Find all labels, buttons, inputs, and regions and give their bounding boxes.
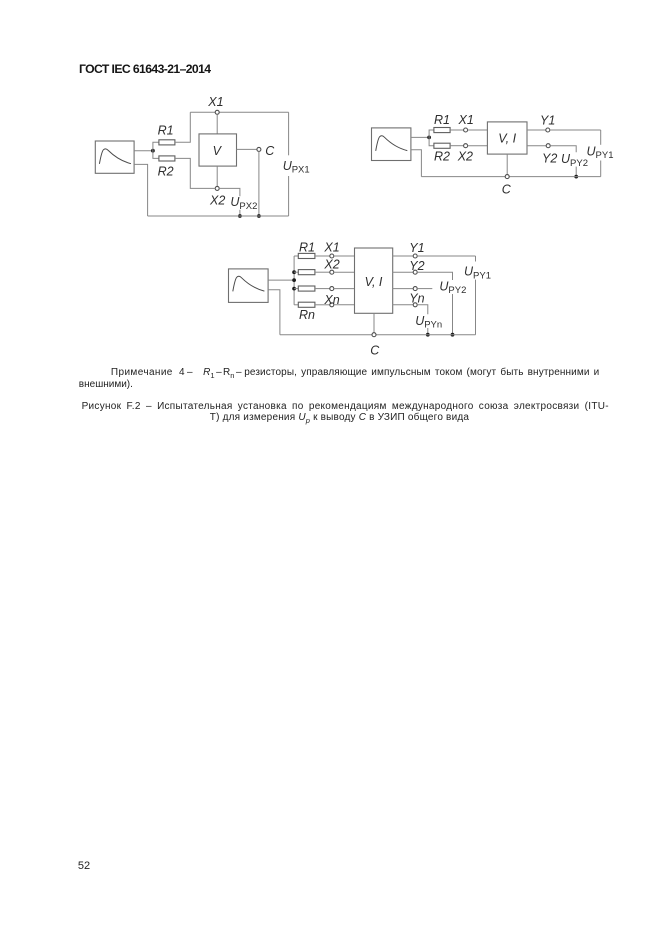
- terminal Y2 (circuit 2): [546, 144, 550, 148]
- impulse waveform inside G2: [376, 136, 408, 151]
- junction dot: row 3 split: [292, 287, 296, 291]
- svg-text:UPX2: UPX2: [230, 195, 257, 212]
- wire: R2 to X2 terminal (circuit 2): [450, 145, 464, 147]
- wire: splitter to resistor R1 (circuit 3): [294, 255, 298, 257]
- wire: V box to C terminal: [237, 148, 257, 150]
- resistor R1 (circuit 3): [298, 253, 315, 258]
- svg-text:Y1: Y1: [409, 241, 424, 255]
- wire: right measurement line lower segment (UPX1): [288, 176, 290, 216]
- wire: R2 output to X2 terminal: [175, 158, 215, 188]
- terminal C: [257, 147, 261, 151]
- junction dot: G3 feed on splitter: [292, 278, 296, 282]
- svg-text:UPX1: UPX1: [283, 159, 310, 176]
- wire: X2 terminal to V,I box: [468, 145, 488, 147]
- svg-text:X1: X1: [458, 113, 474, 127]
- wire: G1 output to junction: [134, 150, 153, 152]
- svg-text:UPYn: UPYn: [415, 314, 442, 331]
- wire: V,I box to Yn terminal (circuit 3): [393, 304, 414, 306]
- svg-text:UPY1: UPY1: [587, 144, 614, 161]
- wire: G2 output to junction: [411, 136, 429, 138]
- resistor row 2 (circuit 3): [298, 270, 315, 275]
- figure caption line 2: [210, 412, 469, 425]
- terminal X2 (circuit 2): [464, 144, 468, 148]
- wire: UPYn lower segment (circuit 3): [427, 328, 429, 335]
- note paragraph line 1: [111, 367, 600, 380]
- svg-text:Y2: Y2: [409, 259, 424, 273]
- wire: X1 terminal to V,I box: [468, 129, 488, 131]
- svg-text:X1: X1: [323, 241, 339, 255]
- resistor row 3 (circuit 3): [298, 286, 315, 291]
- wire: R1 to X1 terminal (circuit 3): [315, 255, 330, 257]
- svg-text:V, I: V, I: [498, 132, 516, 146]
- wire: X2 terminal to UPX2 branch (upper): [219, 188, 240, 196]
- wire: G3 return to bottom line: [268, 290, 280, 335]
- terminal X1: [215, 110, 219, 114]
- impulse waveform inside G3: [233, 276, 265, 291]
- wire: V box down to X2 terminal: [216, 166, 218, 186]
- terminal row 3 (circuit 3): [330, 287, 334, 291]
- wire: Y1 terminal to right line: [550, 129, 601, 131]
- wire: G3 output to splitter: [268, 279, 294, 281]
- wire: Y2 terminal to UPY2 branch: [550, 146, 576, 153]
- junction dot: row X2 split: [292, 270, 296, 274]
- junction dot: C on bottom line: [257, 214, 261, 218]
- terminal row 3 output (circuit 3): [413, 287, 417, 291]
- terminal C (circuit 3): [372, 333, 376, 337]
- svg-text:X1: X1: [207, 95, 223, 109]
- terminal X2 (circuit 3): [330, 270, 334, 274]
- wire: row 3 resistor to terminal: [315, 288, 330, 290]
- junction dot: UPYn on bottom line (circuit 3): [426, 333, 430, 337]
- wire: Y1 terminal to right line (circuit 3): [417, 255, 475, 257]
- wire: splitter to resistor row 3: [294, 288, 298, 290]
- wire: top line X1: [190, 111, 288, 113]
- svg-text:UPY2: UPY2: [561, 152, 588, 169]
- wire: splitter to resistor row 2: [294, 271, 298, 273]
- terminal C (circuit 2): [505, 175, 509, 179]
- wire: row 3 output stub (circuit 3): [417, 288, 432, 290]
- terminal Y1 (circuit 3): [413, 254, 417, 258]
- wire: right measurement line lower segment (UPY1, circuit 3): [475, 280, 477, 335]
- resistor R2 (circuit 2): [434, 143, 450, 148]
- wire: X1 terminal to V,I box (circuit 3): [334, 255, 355, 257]
- wire: V,I box down to C terminal (circuit 2): [506, 154, 508, 175]
- resistor R1 (circuit 2): [434, 128, 450, 133]
- note paragraph line 2: [79, 379, 133, 390]
- wire: right measurement line lower segment (UPY1, circuit 2): [600, 161, 602, 177]
- wire: splitter vertical (circuit 3): [293, 256, 295, 305]
- wire: bottom line (circuit 1): [148, 215, 289, 217]
- junction dot: G1 output split: [151, 149, 155, 153]
- wire: bottom line (circuit 3): [280, 334, 476, 336]
- impulse generator G1 box: [95, 141, 134, 173]
- junction dot: UPY2 on bottom line (circuit 3): [451, 333, 455, 337]
- impulse generator G3 box: [229, 269, 269, 303]
- resistor R2: [159, 156, 175, 161]
- terminal Y1 (circuit 2): [546, 128, 550, 132]
- svg-text:R1: R1: [434, 113, 450, 127]
- wire: splitter vertical between R1 and R2: [153, 142, 159, 158]
- wire: UPY2 branch lower segment (circuit 2): [575, 167, 577, 177]
- terminal X1 (circuit 2): [464, 128, 468, 132]
- wire: Xn terminal to V,I box: [334, 304, 355, 306]
- terminal X1 (circuit 3): [330, 254, 334, 258]
- svg-text:Rn: Rn: [299, 308, 315, 322]
- impulse waveform inside G1: [99, 149, 131, 164]
- wire: R1 output up to X1 line: [175, 112, 190, 142]
- wire: V,I box to Y2 terminal: [527, 145, 546, 147]
- wire: right measurement line upper segment (UPY1, circuit 2): [600, 130, 602, 145]
- wire: V,I box to Y1 terminal (circuit 3): [393, 255, 414, 257]
- measuring box V,I (circuit 2): [487, 122, 527, 154]
- junction dot: UPX2 on bottom line: [238, 214, 242, 218]
- svg-text:Y2: Y2: [542, 152, 557, 166]
- wire: Y2 terminal to UPY2 line (circuit 3): [417, 272, 452, 280]
- terminal X2: [215, 186, 219, 190]
- svg-text:Y1: Y1: [540, 113, 555, 127]
- wire: UPX2 branch lower segment: [239, 210, 241, 216]
- svg-text:X2: X2: [209, 193, 225, 207]
- wire: Rn to Xn terminal: [315, 304, 330, 306]
- svg-text:C: C: [265, 144, 275, 158]
- wire: C terminal down to bottom line: [258, 151, 260, 216]
- wire: right measurement line upper segment (UPY1, circuit 3): [475, 256, 477, 262]
- resistor Rn (circuit 3): [298, 302, 315, 307]
- terminal Xn (circuit 3): [330, 303, 334, 307]
- wire: row 3 terminal to V,I box: [334, 288, 355, 290]
- wire: row 2 resistor to X2 terminal: [315, 271, 330, 273]
- wire: V,I box to Y2 terminal (circuit 3): [393, 271, 414, 273]
- wire: X2 terminal to V,I box (circuit 3): [334, 271, 355, 273]
- svg-text:C: C: [370, 344, 380, 358]
- svg-text:R1: R1: [299, 240, 315, 254]
- junction dot: UPY2 on bottom line (circuit 2): [574, 175, 578, 179]
- svg-text:X2: X2: [457, 150, 473, 164]
- wire: bottom line (circuit 2): [421, 176, 600, 178]
- wire: V,I box down to C terminal (circuit 3): [373, 313, 375, 332]
- wire: G1 return to bottom line: [134, 164, 148, 216]
- figure caption line 1: [82, 401, 609, 412]
- wire: Yn terminal to UPYn line (circuit 3): [417, 305, 428, 315]
- svg-text:UPY2: UPY2: [439, 279, 466, 296]
- page number: [78, 860, 90, 872]
- wire: splitter vertical between R1 and R2 (circuit 2): [429, 130, 434, 146]
- svg-text:UPY1: UPY1: [464, 265, 491, 282]
- svg-text:C: C: [502, 183, 512, 197]
- wire: R1 to X1 terminal (circuit 2): [450, 129, 464, 131]
- wire: right measurement line upper segment (UPX1): [288, 112, 290, 155]
- impulse generator G2 box: [372, 128, 411, 161]
- wire: V,I box to Y1 terminal: [527, 129, 546, 131]
- svg-text:V, I: V, I: [365, 275, 383, 289]
- voltmeter box V: [199, 134, 237, 166]
- svg-text:X2: X2: [323, 258, 339, 272]
- svg-text:R1: R1: [158, 124, 174, 138]
- wire: G2 return to bottom line: [411, 150, 422, 177]
- wire: UPY2 lower segment (circuit 3): [452, 294, 454, 335]
- terminal Y2 (circuit 3): [413, 270, 417, 274]
- junction dot: G2 output split: [427, 136, 431, 140]
- svg-text:R2: R2: [158, 165, 174, 179]
- svg-text:Yn: Yn: [409, 291, 424, 305]
- measuring box V,I (circuit 3): [355, 248, 393, 313]
- wire: splitter to resistor Rn: [294, 304, 298, 306]
- resistor R1: [159, 140, 175, 145]
- svg-text:R2: R2: [434, 150, 450, 164]
- wire: V,I box to row 3 terminal (circuit 3): [393, 288, 414, 290]
- terminal Yn (circuit 3): [413, 303, 417, 307]
- page header: ГОСТ IEC 61643-21-2014: [79, 62, 210, 76]
- wire: X1 terminal down to V box: [216, 114, 218, 134]
